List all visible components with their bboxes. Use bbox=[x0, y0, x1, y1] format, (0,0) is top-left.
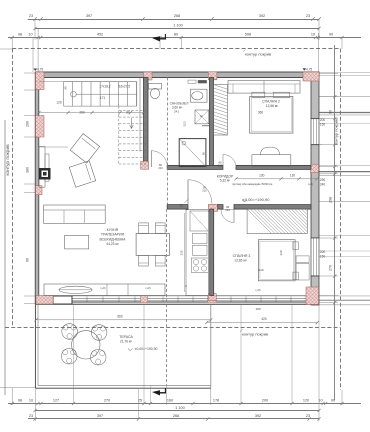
svg-text:290: 290 bbox=[320, 178, 326, 182]
terrace round table bbox=[72, 331, 100, 359]
interior wall corridor bottom right part bbox=[234, 205, 311, 210]
svg-text:120: 120 bbox=[290, 174, 296, 178]
svg-text:±0,00=+190,90: ±0,00=+190,90 bbox=[135, 347, 158, 351]
svg-text:К: К bbox=[185, 284, 187, 288]
svg-text:ТЕРАСА: ТЕРАСА bbox=[119, 335, 133, 339]
svg-text:23: 23 bbox=[29, 14, 33, 18]
dining chairs bottom bbox=[139, 255, 149, 266]
bedroom2 bed bbox=[250, 96, 293, 133]
svg-text:90: 90 bbox=[331, 399, 335, 403]
svg-text:240: 240 bbox=[258, 268, 263, 272]
sofa bbox=[44, 205, 106, 223]
svg-text:270: 270 bbox=[104, 399, 110, 403]
dimension row 3 top (98/10/452/80/508/10/90) bbox=[8, 37, 361, 39]
svg-text:90: 90 bbox=[201, 152, 205, 156]
bedroom3 nightstands bbox=[296, 256, 309, 263]
pink column top-right corner bbox=[303, 72, 319, 81]
svg-text:210: 210 bbox=[218, 164, 223, 168]
svg-text:180: 180 bbox=[255, 307, 260, 311]
bedroom3 dim 420 bbox=[207, 322, 317, 324]
extension lines from top dims bbox=[11, 38, 13, 50]
staircase walk line with start circle bbox=[71, 91, 77, 97]
svg-text:360: 360 bbox=[258, 110, 264, 114]
bedroom2 pillows bbox=[252, 92, 265, 97]
roof contour dashed right bbox=[340, 49, 342, 391]
washbasin bbox=[191, 89, 208, 102]
svg-text:290: 290 bbox=[79, 110, 85, 114]
svg-text:452: 452 bbox=[97, 33, 103, 37]
dimension row A bottom bbox=[8, 403, 361, 405]
right exterior wall middle segment bbox=[311, 145, 319, 238]
staircase upper flight treads bbox=[39, 82, 137, 106]
interior wall kitchen-bedroom3 bbox=[210, 209, 214, 295]
tv bench bbox=[39, 147, 45, 188]
pink column bottom-left corner bbox=[36, 296, 53, 305]
bathroom door leaf and arc bbox=[150, 151, 152, 168]
contour leader left edge bbox=[0, 48, 12, 50]
svg-text:СПАЛНЯ 3: СПАЛНЯ 3 bbox=[233, 254, 251, 258]
bottom window glazing living room bbox=[72, 298, 208, 300]
svg-text:(+0): (+0) bbox=[100, 286, 105, 290]
bedroom3 bed bbox=[258, 240, 295, 281]
stair rail line right bbox=[136, 82, 138, 106]
svg-text:10: 10 bbox=[29, 399, 33, 403]
bedroom2 wardrobe left hatched bbox=[214, 85, 228, 135]
left exterior wall bbox=[35, 72, 39, 304]
window mullion ticks bottom wall bbox=[86, 297, 88, 302]
svg-text:ТРАПЕЗАРИЯ: ТРАПЕЗАРИЯ bbox=[101, 233, 125, 237]
bedroom2 desk and chair bbox=[252, 155, 291, 167]
coffee table bbox=[65, 235, 89, 249]
svg-text:392: 392 bbox=[255, 414, 261, 418]
dimension row C bottom bbox=[28, 418, 319, 420]
svg-text:(+0): (+0) bbox=[255, 288, 260, 292]
pink column left wall b bbox=[36, 186, 43, 195]
svg-text:420: 420 bbox=[261, 317, 267, 321]
svg-text:12: 12 bbox=[199, 114, 203, 118]
svg-text:120: 120 bbox=[303, 399, 309, 403]
pink column corridor-kitchen junction bbox=[208, 204, 217, 211]
svg-text:178: 178 bbox=[213, 399, 219, 403]
pink column top wall mid bbox=[144, 72, 153, 80]
kitchen stove 4 plates bbox=[191, 258, 208, 272]
svg-text:ВСЕКИДНЕВНА: ВСЕКИДНЕВНА bbox=[99, 237, 126, 241]
svg-text:130: 130 bbox=[259, 174, 265, 178]
svg-text:контур покрив: контур покрив bbox=[245, 52, 271, 57]
svg-text:98: 98 bbox=[18, 33, 22, 37]
kitchen island sink oval bbox=[59, 286, 92, 293]
washing machine bbox=[195, 110, 209, 124]
svg-text:200: 200 bbox=[26, 121, 30, 127]
svg-text:330: 330 bbox=[279, 250, 283, 255]
svg-text:23: 23 bbox=[29, 414, 33, 418]
svg-text:СПАЛНЯ 2: СПАЛНЯ 2 bbox=[262, 100, 280, 104]
extension line terrace d bbox=[138, 388, 140, 419]
extension line left pair bbox=[32, 38, 34, 73]
svg-text:150: 150 bbox=[320, 255, 326, 259]
svg-text:1 100: 1 100 bbox=[173, 24, 183, 28]
bedroom3 pillows bbox=[293, 242, 298, 250]
right exterior wall upper segment bbox=[311, 78, 319, 119]
terrace dashed roof edge vertical bbox=[166, 209, 168, 385]
svg-text:10: 10 bbox=[311, 33, 315, 37]
svg-text:298: 298 bbox=[329, 197, 333, 203]
kitchen door leaf and arc bbox=[187, 180, 189, 204]
terrace chairs bbox=[62, 324, 78, 340]
dining table bbox=[136, 234, 169, 256]
bottom wall outer lines bbox=[36, 301, 319, 303]
svg-text:660: 660 bbox=[117, 315, 123, 319]
pink column top wall bedroom2 bbox=[208, 72, 217, 80]
svg-text:323: 323 bbox=[183, 121, 187, 126]
svg-text:397: 397 bbox=[97, 414, 103, 418]
toilet bbox=[149, 84, 162, 99]
pink column left wall a bbox=[36, 116, 45, 138]
pink column bottom-right corner bbox=[306, 287, 319, 305]
svg-text:12,66 м²: 12,66 м² bbox=[266, 104, 279, 108]
shower cabin bbox=[179, 139, 206, 167]
svg-text:120: 120 bbox=[56, 101, 62, 105]
svg-text:90: 90 bbox=[329, 110, 333, 114]
svg-text:160: 160 bbox=[167, 399, 173, 403]
kitchen sink double bowl bbox=[193, 233, 208, 244]
svg-text:1 100: 1 100 bbox=[175, 406, 185, 410]
stair dim line internal bbox=[39, 112, 144, 114]
extension line bedroom3 wall a bbox=[240, 304, 242, 403]
extension line through terrace c bbox=[150, 386, 152, 404]
roof contour dashed left bbox=[12, 49, 14, 328]
armchair 1 rotated bbox=[70, 134, 99, 163]
svg-text:12: 12 bbox=[179, 204, 183, 208]
bedroom3 door with arc bbox=[221, 210, 234, 223]
armchair 2 rotated bbox=[69, 161, 95, 187]
interior wall corridor top (bedroom2 bottom) right part bbox=[236, 165, 311, 169]
svg-text:10: 10 bbox=[28, 33, 32, 37]
kitchen counter divider bbox=[106, 284, 108, 296]
svg-text:тротоар обш.камередве /50/90 с: тротоар обш.камередве /50/90 см bbox=[232, 182, 273, 186]
roof contour dashed top bbox=[12, 48, 340, 50]
kitchen counter bottom run bbox=[44, 284, 165, 296]
pink column bathroom door bbox=[141, 161, 149, 169]
interior wall bedroom2 left bbox=[210, 78, 214, 166]
svg-text:КУХНЯ: КУХНЯ bbox=[107, 228, 119, 232]
svg-text:4,75: 4,75 bbox=[306, 67, 312, 71]
interior wall corridor top (bedroom2 bottom) left part bbox=[167, 165, 223, 169]
svg-text:210: 210 bbox=[202, 189, 207, 193]
dimension row 2 top (1 100) bbox=[35, 28, 319, 30]
svg-text:380: 380 bbox=[26, 167, 30, 173]
top exterior wall bbox=[36, 72, 319, 78]
pink column top-left corner bbox=[36, 72, 45, 90]
svg-text:210: 210 bbox=[158, 166, 163, 170]
extension line through terrace b bbox=[143, 304, 145, 403]
bottom window glazing bedroom3 bbox=[216, 298, 306, 300]
pink column bottom wall a bbox=[141, 296, 148, 303]
svg-text:90: 90 bbox=[26, 258, 30, 262]
svg-text:171: 171 bbox=[100, 96, 106, 100]
terrace bottom edge bbox=[35, 387, 210, 389]
right exterior wall lower segment bbox=[311, 276, 319, 305]
svg-text:5,32 м²: 5,32 м² bbox=[220, 179, 230, 183]
section cut arrow bottom bbox=[152, 388, 166, 396]
right extension lines bbox=[319, 73, 338, 75]
window bedroom2 right wall bbox=[311, 119, 319, 145]
svg-text:23: 23 bbox=[306, 14, 310, 18]
svg-text:240: 240 bbox=[320, 183, 326, 187]
interior wall bathroom left bbox=[144, 78, 149, 162]
dimension row B bottom (1 100) bbox=[35, 410, 319, 412]
svg-text:90: 90 bbox=[126, 110, 130, 114]
svg-text:98: 98 bbox=[18, 399, 22, 403]
svg-text:210: 210 bbox=[225, 208, 230, 212]
svg-text:508: 508 bbox=[245, 33, 251, 37]
svg-text:241: 241 bbox=[174, 110, 179, 114]
interior wall washing machine separator bbox=[202, 125, 212, 127]
bedroom3 wardrobe hatched bbox=[247, 209, 307, 234]
svg-text:200: 200 bbox=[320, 250, 326, 254]
corridor dim line bbox=[236, 178, 317, 180]
bedroom2 door with arc bbox=[223, 155, 236, 168]
svg-text:200: 200 bbox=[262, 399, 268, 403]
roof contour dashed bottom bbox=[5, 327, 341, 329]
svg-text:(+0): (+0) bbox=[308, 182, 313, 186]
bathroom radiator bbox=[198, 80, 207, 83]
svg-text:90: 90 bbox=[329, 33, 333, 37]
left dimension line bbox=[4, 120, 6, 395]
kitchen fridge bbox=[190, 211, 208, 231]
svg-text:12,65 м²: 12,65 м² bbox=[234, 259, 247, 263]
dining chairs top bbox=[139, 223, 149, 234]
svg-text:контур покрив: контур покрив bbox=[242, 332, 268, 337]
pink column bottom wall b bbox=[208, 295, 216, 302]
window frame bottom left bbox=[53, 296, 72, 304]
kitchen counter right run bbox=[186, 210, 208, 296]
bedroom2 wardrobe top bbox=[228, 81, 300, 94]
right dimension line bbox=[334, 45, 336, 400]
svg-text:17x18,2: 17x18,2 bbox=[99, 85, 111, 89]
svg-text:397: 397 bbox=[86, 14, 92, 18]
terrace right edge bbox=[210, 304, 212, 388]
dimension row 1 top (23/397/268/392/23) bbox=[28, 17, 321, 20]
svg-text:268: 268 bbox=[174, 14, 180, 18]
interior wall corridor bottom left part bbox=[167, 205, 188, 210]
svg-text:4,75: 4,75 bbox=[37, 68, 43, 72]
pink column right wall mid bbox=[311, 164, 319, 172]
adjacent structure lines right bbox=[319, 72, 370, 74]
pink column kitchen bottom bbox=[208, 294, 216, 301]
svg-text:127: 127 bbox=[53, 399, 59, 403]
extension line bedroom3 wall b bbox=[291, 304, 293, 403]
corridor dashed opening line bbox=[167, 78, 169, 205]
svg-text:/16x27,5: /16x27,5 bbox=[118, 85, 130, 89]
svg-text:23: 23 bbox=[306, 414, 310, 418]
interior wall stub bedroom3 left of door bbox=[218, 205, 223, 210]
section cut arrow top bbox=[152, 34, 166, 42]
svg-text:150: 150 bbox=[320, 123, 326, 127]
window bedroom3 right wall bbox=[311, 238, 319, 276]
svg-text:контур покрив: контур покрив bbox=[6, 144, 11, 176]
svg-text:392: 392 bbox=[259, 14, 265, 18]
bedroom2 window sill lines bbox=[319, 118, 322, 120]
left extension lines bbox=[24, 72, 35, 74]
svg-text:270: 270 bbox=[329, 265, 333, 271]
stair down arrow bbox=[130, 118, 133, 129]
fireplace stove bbox=[39, 168, 51, 180]
kitchen dim line 335 rotated bbox=[184, 213, 186, 292]
svg-text:268: 268 bbox=[173, 414, 179, 418]
svg-text:(+0): (+0) bbox=[145, 286, 150, 290]
terrace left edge bbox=[34, 304, 36, 388]
svg-text:21,76 м²: 21,76 м² bbox=[120, 340, 132, 344]
extension lines bottom bbox=[11, 388, 13, 405]
extension line through terrace a bbox=[73, 304, 75, 403]
svg-text:80: 80 bbox=[174, 33, 178, 37]
svg-text:44,23 м²: 44,23 м² bbox=[106, 242, 119, 246]
terrace dim 660 bbox=[36, 319, 211, 321]
staircase lower flight dashed treads bbox=[119, 106, 146, 164]
svg-text:335: 335 bbox=[180, 250, 184, 255]
svg-text:90: 90 bbox=[64, 86, 68, 90]
